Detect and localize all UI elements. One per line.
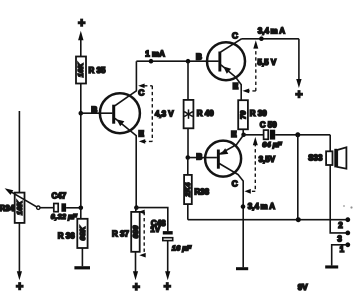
svg-text:R 39: R 39	[250, 109, 267, 118]
measure 5,5V dashed	[249, 45, 256, 91]
svg-text:C: C	[232, 30, 238, 40]
svg-text:16 µF: 16 µF	[172, 244, 192, 253]
svg-text:E: E	[138, 128, 144, 138]
wire junction to R40	[187, 61, 189, 100]
wire R34 top lead	[18, 111, 20, 193]
wire R38 to bottom rail	[187, 204, 189, 220]
wire output down to bottom rail	[297, 135, 299, 220]
wire top right rail	[242, 38, 299, 40]
svg-text:2K4: 2K4	[183, 182, 192, 197]
svg-text:9V: 9V	[298, 283, 308, 292]
transistor T1	[100, 93, 140, 133]
wire collector T2 to rail	[220, 39, 242, 53]
wire corner down to speaker	[329, 135, 331, 152]
wire C47 to junction	[66, 207, 81, 209]
svg-text:R 40: R 40	[197, 109, 214, 118]
terminal 1	[345, 242, 350, 247]
arrow down (R34 supply)	[17, 271, 22, 280]
svg-text:2: 2	[338, 221, 343, 230]
wire junction to R37	[135, 208, 137, 212]
svg-text:1: 1	[340, 245, 345, 254]
svg-text:+: +	[78, 16, 85, 30]
wire junction to C48	[136, 208, 167, 232]
node emitter T3 / R39 / C50	[241, 133, 246, 138]
resistor R36	[77, 219, 87, 248]
capacitor C47	[54, 203, 66, 212]
svg-text:E: E	[233, 81, 239, 91]
node T1 base junction	[79, 111, 84, 116]
measure 1V dashed	[143, 212, 145, 255]
svg-text:E: E	[231, 129, 237, 139]
node C47 R36 junction	[79, 206, 84, 211]
potentiometer R34	[5, 188, 40, 223]
svg-text:C47: C47	[52, 191, 67, 200]
wire emitter T1 down to junction	[115, 118, 136, 207]
capacitor C50	[264, 130, 276, 140]
node on 1mA rail	[149, 59, 154, 64]
wire base of T1	[81, 112, 113, 114]
wire base T3	[188, 157, 217, 159]
speaker S33	[326, 147, 346, 168]
svg-text:R 35: R 35	[89, 66, 106, 75]
svg-text:B: B	[91, 104, 97, 114]
wire R34 bottom to supply arrow	[18, 223, 20, 272]
wire emitter T3 up to E node	[218, 135, 244, 155]
wire E node to C50	[244, 134, 264, 136]
wire wiper to C47	[40, 207, 54, 209]
wire C50 to output corner	[275, 134, 330, 136]
svg-text:R 36: R 36	[58, 232, 75, 241]
node T2 base / R40 junction	[186, 59, 191, 64]
svg-text:+: +	[164, 280, 171, 294]
wire R37 to supply arrow	[135, 252, 137, 272]
speck noise 1	[343, 205, 345, 207]
svg-text:0,32 µF: 0,32 µF	[51, 212, 78, 221]
svg-text:680: 680	[131, 225, 140, 238]
svg-text:10K: 10K	[76, 62, 85, 77]
resistor R38	[183, 175, 192, 204]
ground (terminal 1)	[325, 265, 338, 268]
node bottom rail	[296, 217, 301, 222]
measure 3,5V dashed	[250, 143, 255, 191]
svg-text:68K: 68K	[78, 226, 87, 241]
transistor T2	[207, 42, 245, 80]
resistor R35	[76, 57, 86, 84]
svg-text:B: B	[196, 52, 202, 62]
svg-text:+: +	[16, 280, 23, 294]
arrow down (R37 supply)	[133, 271, 138, 280]
terminal 3	[345, 231, 350, 236]
arrow down (C48 supply)	[165, 271, 170, 280]
capacitor C48	[163, 231, 173, 240]
svg-text:4,3 V: 4,3 V	[155, 109, 174, 118]
terminal 2	[345, 217, 350, 222]
wire emitter T2 to R39	[221, 65, 241, 100]
speck noise 2	[350, 206, 352, 208]
svg-text:C: C	[232, 178, 238, 188]
svg-text:70: 70	[238, 110, 247, 119]
svg-text:5,5 V: 5,5 V	[258, 58, 277, 67]
svg-text:R38: R38	[194, 187, 209, 196]
resistor R37	[131, 212, 140, 252]
wire collector T1 to rail	[115, 61, 137, 106]
node 3,4mA bottom	[241, 204, 246, 209]
node T3 base junction	[186, 155, 191, 160]
arrow down (right supply)	[296, 79, 301, 88]
resistor R40	[184, 100, 194, 128]
svg-text:3,4 m A: 3,4 m A	[258, 27, 285, 36]
wire bottom rail	[188, 219, 348, 221]
svg-text:3,4 m A: 3,4 m A	[248, 202, 275, 211]
arrow up (R35 supply)	[78, 31, 83, 57]
wire R40 to T3 base junction	[187, 128, 189, 157]
wire collector T3 down to ground	[218, 163, 244, 268]
svg-text:R34: R34	[0, 204, 15, 213]
svg-text:B: B	[196, 151, 202, 161]
wire C48 to supply arrow	[167, 241, 169, 272]
wire supply drop right	[298, 39, 300, 80]
wire R35 bottom to C47 junction	[80, 84, 82, 208]
wire top rail T1 collector to T2 base	[136, 60, 218, 62]
wire R39 to E node	[242, 129, 244, 135]
svg-text:+: +	[295, 88, 302, 102]
ground (T3 collector)	[236, 267, 248, 270]
node top rail	[259, 36, 264, 41]
wire R36 to ground	[81, 248, 83, 266]
wire T3 base junction to R38	[187, 158, 189, 175]
svg-text:+: +	[133, 280, 140, 294]
measure 4,3V dashed	[144, 86, 152, 142]
svg-text:S33: S33	[308, 154, 323, 163]
transistor T3	[205, 141, 241, 177]
svg-text:3,5V: 3,5V	[259, 155, 276, 164]
svg-text:R 37: R 37	[112, 230, 129, 239]
node output junction	[295, 132, 300, 137]
svg-text:1V: 1V	[150, 225, 160, 234]
svg-text:C: C	[138, 88, 144, 98]
svg-text:64 µF: 64 µF	[262, 140, 282, 149]
ground (R36)	[74, 266, 90, 269]
node T1 emitter / R37 / C48 junction	[134, 205, 139, 210]
wire terminal 1 to ground	[332, 245, 348, 266]
svg-text:1 mA: 1 mA	[145, 50, 165, 59]
wire speaker to terminal 3	[330, 165, 348, 233]
svg-text:3: 3	[337, 235, 342, 244]
svg-text:10K: 10K	[15, 200, 24, 215]
svg-text:C 50: C 50	[260, 120, 277, 129]
resistor R39	[238, 100, 248, 129]
wire junction to R36	[80, 208, 82, 219]
